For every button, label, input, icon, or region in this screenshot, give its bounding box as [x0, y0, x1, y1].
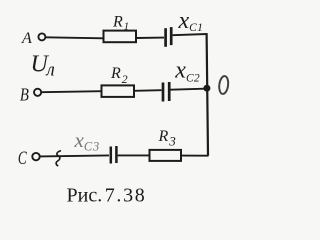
- bus wire vertical to node O: [207, 33, 208, 156]
- svg-text:xC2: xC2: [174, 57, 200, 84]
- svg-text:л: л: [46, 60, 55, 81]
- svg-text:C: C: [18, 146, 28, 168]
- capacitor C2 plate right: [168, 82, 171, 101]
- wire C3 to R3: [118, 154, 150, 156]
- resistor R3: [150, 150, 182, 161]
- svg-text:xC3: xC3: [74, 128, 101, 154]
- capacitor C3 plate right: [115, 146, 118, 163]
- wire B to R2: [41, 91, 101, 92]
- wire C2 to node O: [171, 89, 206, 90]
- wire A to R1: [46, 37, 104, 38]
- svg-text:R2: R2: [110, 65, 128, 86]
- wire C1 to bus corner: [173, 34, 207, 35]
- capacitor C1 plate left: [164, 28, 167, 47]
- resistor R1: [104, 31, 137, 43]
- svg-text:xC1: xC1: [178, 8, 204, 34]
- svg-text:R3: R3: [158, 128, 177, 148]
- wire C to C3 with break: [40, 155, 109, 156]
- resistor R2: [102, 85, 135, 97]
- wire R1 to C1: [136, 37, 164, 39]
- terminal A: [38, 33, 45, 40]
- node O dot: [203, 85, 210, 92]
- capacitor C1 plate right: [170, 27, 173, 45]
- capacitor C3 plate left: [110, 147, 113, 164]
- break squiggle on wire C: [56, 151, 61, 166]
- svg-text:B: B: [20, 84, 29, 105]
- wire R2 to C2: [134, 89, 162, 92]
- svg-text:A: A: [21, 30, 32, 47]
- label O: [218, 76, 229, 95]
- svg-text:Рис.7.38: Рис.7.38: [67, 185, 147, 207]
- svg-text:R1: R1: [112, 13, 129, 32]
- terminal B: [34, 89, 41, 96]
- terminal C: [32, 153, 39, 160]
- wire R3 to bus: [181, 155, 209, 157]
- capacitor C2 plate left: [162, 83, 165, 102]
